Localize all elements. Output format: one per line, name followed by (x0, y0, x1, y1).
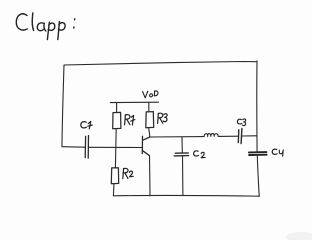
wire: L1 to C3 (218, 135, 238, 137)
smudge bottom-right (286, 232, 318, 240)
capacitor C1 (85, 136, 88, 159)
wire: ground / bottom rail (113, 195, 259, 198)
transistor Q1 (142, 136, 150, 155)
wire: collector node down to C2 (181, 137, 183, 152)
node VDD supply rail (110, 101, 158, 103)
resistor R3 (146, 112, 154, 128)
wire: C1 to base node B (89, 146, 142, 148)
wire: C3 to output node on right edge (242, 135, 257, 137)
capacitor C2 (174, 153, 188, 156)
label R1 (125, 115, 135, 125)
wire: R2 to ground rail (112, 184, 115, 196)
resistor R2 (111, 168, 118, 184)
label C4 (272, 149, 283, 156)
capacitor C4 (249, 152, 267, 155)
capacitor C3 (238, 128, 242, 143)
label C1 (81, 121, 92, 128)
wire: VDD rail to R1 (116, 103, 118, 113)
wire: collector node to inductor L1 (150, 136, 204, 138)
wire: C2 to ground rail (182, 156, 184, 195)
inductor L1 (204, 133, 218, 136)
wire: feedback loop right edge (output node to C4 top) (256, 61, 258, 152)
label VDD (143, 91, 158, 98)
label R3 (158, 113, 168, 123)
wire: C4 bottom to ground rail (257, 156, 259, 197)
wire: VDD rail to R3 (148, 102, 150, 111)
wire: left lead to C1 (62, 146, 85, 149)
title "Clapp:" (16, 13, 75, 40)
label R2 (123, 168, 133, 178)
resistor R1 (113, 112, 121, 128)
label C3 (237, 119, 245, 126)
wire: emitter to ground rail (149, 156, 152, 196)
label C2 (194, 151, 206, 158)
wire: R1 bottom through base junction to R2 (114, 129, 117, 168)
wire: feedback loop top edge (64, 62, 257, 66)
wire: R3 to collector node (149, 128, 150, 137)
wire: feedback loop left edge (62, 65, 64, 147)
